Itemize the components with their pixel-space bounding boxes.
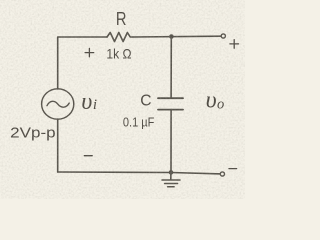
terminal top right — [221, 34, 225, 38]
junction dot bottom — [169, 170, 174, 175]
ground bar 3 — [168, 186, 175, 188]
wire top-left: left rail up + top rail to resistor — [58, 37, 107, 89]
ground stub — [170, 173, 172, 180]
plus sign left of resistor — [85, 48, 94, 56]
capacitor C top plate — [158, 97, 183, 99]
resistor R zigzag — [107, 33, 133, 42]
sine symbol inside source — [47, 101, 69, 107]
minus sign bottom right — [229, 168, 237, 170]
background paper — [0, 0, 245, 199]
plus sign top right — [230, 40, 239, 49]
junction dot top — [169, 34, 174, 39]
wire capacitor top lead — [170, 37, 172, 99]
minus sign below source — [84, 155, 92, 157]
ground bar 2 — [165, 183, 178, 185]
terminal bottom right — [220, 172, 224, 176]
ground bar 1 — [162, 179, 180, 181]
wire capacitor bottom lead — [170, 110, 172, 173]
wire resistor to junction and output terminal — [133, 35, 221, 38]
wire bottom rail — [58, 172, 222, 174]
voltage source vi circle — [42, 89, 74, 119]
capacitor C bottom plate — [158, 109, 183, 111]
paper grain overlay — [0, 0, 245, 199]
wire left rail lower — [57, 119, 59, 172]
